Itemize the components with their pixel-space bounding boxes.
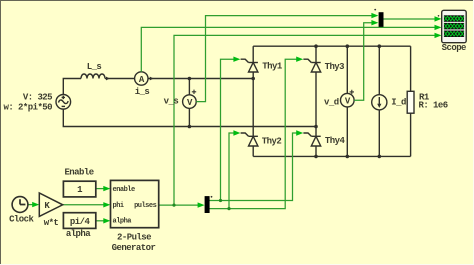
svg-text:Thy4: Thy4 xyxy=(325,136,346,146)
wire: bridge left leg lower xyxy=(252,146,254,156)
constant block pi/4 (alpha) xyxy=(63,213,95,229)
thyristor Thy3 xyxy=(303,59,320,72)
svg-text:i_s: i_s xyxy=(135,87,150,97)
node: top bus Thy3 xyxy=(314,44,318,48)
voltmeter V (v_s) xyxy=(183,90,197,109)
inductor L_s xyxy=(81,74,105,79)
wire: R1 branch bottom xyxy=(410,113,412,156)
wire: i_s signal to scope input 2 xyxy=(141,27,437,71)
arrow: gate to Thy1 xyxy=(233,57,240,62)
wire: gain to phi xyxy=(63,204,107,206)
wire: clock to gain xyxy=(28,204,36,206)
svg-text:Thy2: Thy2 xyxy=(262,136,282,146)
wire: v_d signal to mux input 2 xyxy=(354,23,374,101)
wire: top bus xyxy=(253,45,410,47)
arrow: pi/4 to alpha xyxy=(103,218,110,223)
voltmeter V (v_d) xyxy=(341,90,355,107)
wire: R1 branch top xyxy=(410,46,412,91)
thyristor Thy2 xyxy=(241,133,258,146)
wire: source top to inductor xyxy=(63,79,81,95)
svg-text:phi: phi xyxy=(113,202,124,210)
node: top bus I_d xyxy=(378,44,382,48)
wire: pulses to demux and scope input 3 xyxy=(159,35,438,205)
arrow: pulses to scope xyxy=(435,33,442,38)
ammeter A (i_s) xyxy=(135,72,148,85)
wire: bottom bus xyxy=(253,155,410,157)
arrow: clock to gain xyxy=(32,202,39,207)
thyristor Thy4 xyxy=(303,133,320,146)
svg-text:Thy3: Thy3 xyxy=(325,62,345,72)
arrow: mux to scope xyxy=(435,16,442,21)
node: bottom bus Thy4 xyxy=(314,155,318,159)
gain block K xyxy=(39,193,62,216)
node: v_s bottom junction xyxy=(188,125,192,129)
thyristor Thy1 xyxy=(241,59,258,72)
svg-text:I_d: I_d xyxy=(391,97,406,107)
svg-text:pi/4: pi/4 xyxy=(70,217,91,227)
wire: pi/4 to alpha xyxy=(96,220,107,222)
svg-text:Enable: Enable xyxy=(64,168,93,178)
svg-text:V: 325: V: 325 xyxy=(23,93,52,103)
wire: demux out1 to Thy1 and Thy4 gates xyxy=(209,59,300,200)
svg-text:Generator: Generator xyxy=(112,243,156,253)
wire: bridge right leg lower xyxy=(315,146,317,156)
wire: I_d branch bottom xyxy=(378,110,380,156)
node: top bus v_d xyxy=(346,44,350,48)
wire: v_s top stub xyxy=(188,79,190,95)
arrow: i_s to scope xyxy=(435,25,442,30)
wire: ammeter to bridge left leg xyxy=(148,78,253,80)
arrow: gate to Thy4 xyxy=(296,130,303,135)
wire: bridge right leg upper xyxy=(315,46,317,62)
wire: bridge right leg middle xyxy=(315,72,317,136)
node: gate1 branch xyxy=(219,199,222,202)
black junction dots xyxy=(188,44,382,158)
node: gate2 branch xyxy=(227,207,230,210)
clock block xyxy=(12,197,28,213)
svg-text:w: 2*pi*50: w: 2*pi*50 xyxy=(3,102,52,112)
wire: demux out2 to Thy2 and Thy3 gates xyxy=(209,59,300,208)
wire: v_d branch bottom xyxy=(346,107,348,156)
arrow: 1 to enable xyxy=(103,186,110,191)
green arrowheads xyxy=(32,13,441,224)
svg-text:Thy1: Thy1 xyxy=(262,62,283,72)
node: bottom bus v_d xyxy=(346,155,350,159)
svg-text:R: 1e6: R: 1e6 xyxy=(419,101,448,111)
resistor R1 xyxy=(407,91,414,113)
arrow: gate to Thy2 xyxy=(233,130,240,135)
wire: bridge left leg upper xyxy=(252,46,254,62)
wire: v_d branch top xyxy=(346,46,348,93)
scope block xyxy=(438,10,467,42)
node: pulses branch xyxy=(172,204,175,207)
node: AC to left leg xyxy=(251,77,255,81)
wire: constant 1 to enable xyxy=(96,188,107,190)
wire: inductor to ammeter xyxy=(105,78,135,80)
svg-text:L_s: L_s xyxy=(87,62,102,72)
arrowhead after inductor xyxy=(106,77,110,81)
green junction dots xyxy=(172,199,230,210)
2-pulse generator block xyxy=(111,180,159,227)
arrow: pulses to demux xyxy=(198,202,205,207)
node: v_s top junction xyxy=(188,77,192,81)
svg-text:enable: enable xyxy=(113,186,136,194)
demux (pulse splitter) xyxy=(205,196,213,213)
constant block 1 (Enable) xyxy=(63,181,95,197)
svg-text:v_s: v_s xyxy=(164,97,179,107)
svg-text:v_d: v_d xyxy=(324,97,339,107)
node: return to right leg xyxy=(314,125,318,129)
node: bottom bus I_d xyxy=(378,155,382,159)
arrow: gain to phi xyxy=(103,202,110,207)
arrow: v_d to mux xyxy=(371,20,378,25)
svg-text:2-Pulse: 2-Pulse xyxy=(117,232,151,242)
svg-text:Clock: Clock xyxy=(9,215,34,225)
AC source V_ac xyxy=(56,95,71,110)
wire: bridge left leg middle xyxy=(252,72,254,136)
svg-text:pulses: pulses xyxy=(134,202,157,210)
svg-text:alpha: alpha xyxy=(113,218,133,226)
current source I_d xyxy=(372,95,387,110)
wire: I_d branch top xyxy=(378,46,380,94)
wire: AC return from source bottom to right leg midpoint xyxy=(63,109,316,126)
svg-text:Scope: Scope xyxy=(442,43,466,53)
arrow: v_s to mux xyxy=(371,13,378,18)
arrowhead after ammeter xyxy=(150,77,154,81)
svg-text:w*t: w*t xyxy=(44,218,59,228)
arrow: gate to Thy3 xyxy=(296,57,303,62)
wire: v_s bottom stub xyxy=(188,108,190,126)
wire: mux output to scope input 1 xyxy=(384,18,438,20)
svg-text:alpha: alpha xyxy=(66,229,91,239)
wire: v_s signal to mux input 1 xyxy=(196,16,374,102)
mux (v_s, v_d) xyxy=(374,9,383,27)
